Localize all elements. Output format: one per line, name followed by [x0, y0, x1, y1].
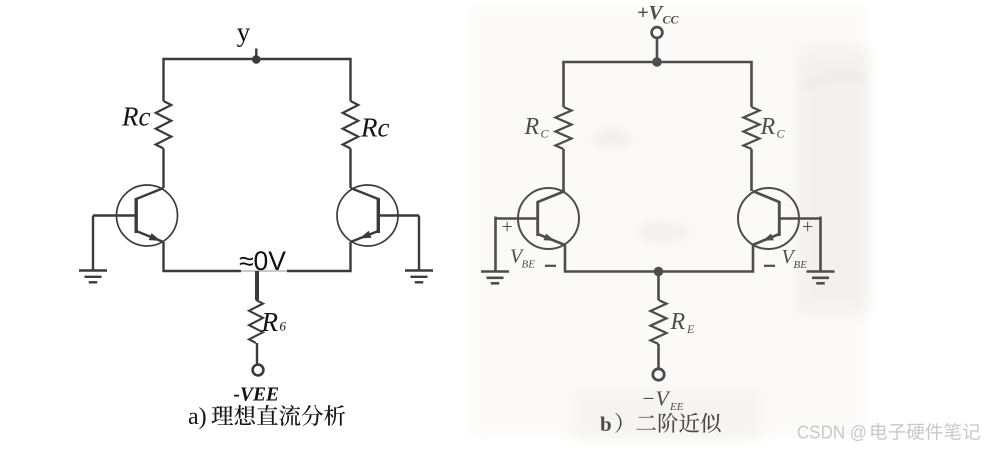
- svg-text:+: +: [802, 216, 813, 238]
- svg-text:C: C: [777, 127, 786, 141]
- svg-text:b: b: [600, 412, 612, 436]
- svg-text:+V: +V: [637, 2, 665, 24]
- svg-text:BE: BE: [522, 259, 536, 271]
- svg-text:≈0V: ≈0V: [239, 246, 286, 276]
- svg-text:+: +: [502, 216, 513, 238]
- svg-text:-VEE: -VEE: [234, 385, 280, 406]
- svg-text:Rc: Rc: [121, 102, 150, 132]
- svg-text:BE: BE: [794, 259, 808, 271]
- svg-text:R: R: [760, 114, 776, 140]
- svg-text:y: y: [237, 17, 251, 47]
- svg-text:R: R: [670, 309, 686, 335]
- svg-text:CSDN @: CSDN @: [797, 423, 867, 443]
- svg-text:E: E: [686, 322, 695, 336]
- svg-text:C: C: [541, 127, 550, 141]
- svg-text:EE: EE: [669, 401, 684, 413]
- svg-text:6: 6: [280, 319, 287, 334]
- svg-text:R: R: [261, 307, 279, 337]
- svg-text:Rc: Rc: [360, 113, 389, 143]
- svg-text:R: R: [524, 114, 540, 140]
- svg-text:−V: −V: [641, 387, 672, 411]
- svg-text:a): a): [188, 404, 207, 430]
- svg-text:CC: CC: [663, 13, 680, 27]
